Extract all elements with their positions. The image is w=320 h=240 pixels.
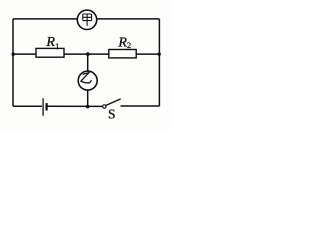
wire bottom middle [46, 105, 102, 107]
wire meter-乙 branch lower [87, 90, 89, 106]
battery cell: short plate [45, 103, 47, 110]
resistor R1 [36, 35, 64, 57]
wire bottom left [13, 105, 42, 107]
battery cell: long plate [42, 98, 44, 116]
wire middle [13, 53, 159, 55]
svg-text:1: 1 [55, 41, 59, 51]
node mid (junction dot) [86, 52, 90, 56]
meter 乙 (U2) [78, 71, 97, 90]
node left (junction dot) [12, 53, 15, 56]
switch S pivot [103, 105, 106, 108]
switch S lever [106, 99, 121, 106]
node bottom (junction dot) [86, 105, 90, 109]
wire left [12, 19, 14, 106]
node right (junction dot) [158, 52, 161, 55]
svg-text:R: R [45, 35, 55, 50]
wire top [13, 18, 159, 20]
svg-text:S: S [108, 106, 116, 121]
svg-text:2: 2 [127, 40, 131, 50]
wire meter-乙 branch upper [87, 54, 89, 71]
wire bottom right [121, 105, 160, 107]
meter 甲 (U1) [77, 10, 96, 29]
svg-text:R: R [117, 35, 127, 50]
resistor R2 [109, 35, 136, 58]
wire right [158, 19, 160, 106]
